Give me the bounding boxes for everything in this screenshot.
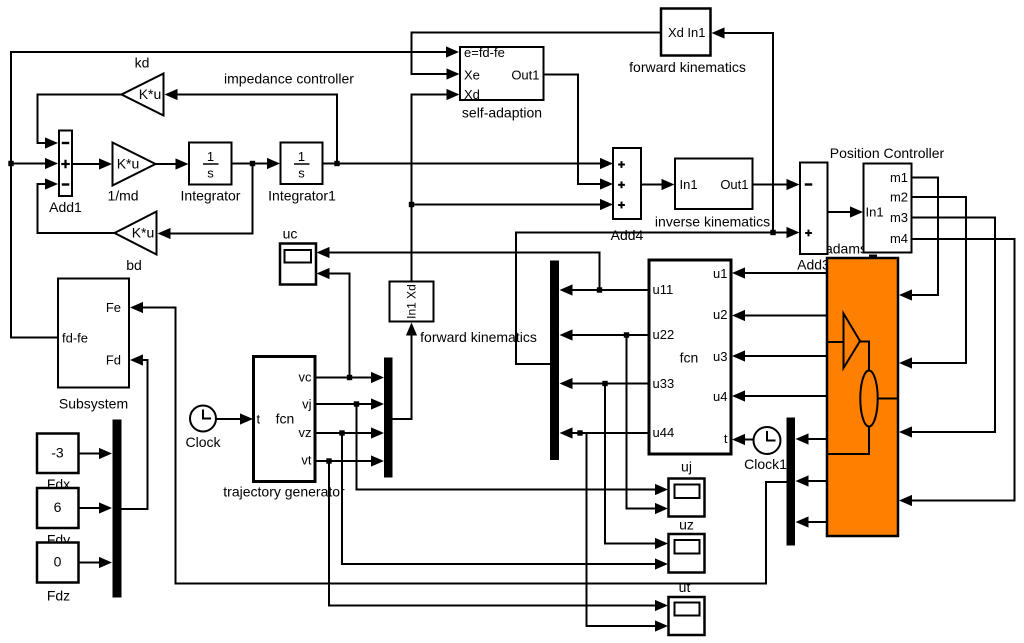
svg-text:Add1: Add1 [49,199,82,215]
wire u44 branch down to ut scope input 2 [587,433,669,632]
wire forward kinematics Xd out to self-adaption Xe [412,33,662,80]
svg-text:m1: m1 [890,170,908,185]
wire adams out 2 to fcn u2 [732,310,827,321]
svg-text:uz: uz [679,517,694,533]
svg-text:6: 6 [54,499,62,515]
wire constant 6 to mux [79,502,113,513]
svg-text:Integrator1: Integrator1 [268,188,336,204]
subsystem Subsystem (fd-fe) [58,279,129,412]
svg-text:kd: kd [135,55,150,71]
node junction u44 branch [577,430,582,435]
constant 0 (Fdz) [37,543,79,604]
svg-text:0: 0 [54,554,62,570]
wire Integrator out to Integrator1 [232,158,281,169]
wire u33 branch down to uz scope input 1 [605,384,668,550]
node junction Integrator out branch to bd [250,161,255,166]
svg-text:s: s [298,166,305,181]
wire vc to trajectory mux [315,372,385,383]
wire constant -3 to mux [79,448,113,459]
svg-text:Out1: Out1 [720,177,748,192]
wire fcn u22 to u-mux [560,329,650,340]
wire bd feedback branch down to bd gain input [158,164,253,240]
node junction Xd net to Add4 [409,202,414,207]
svg-text:Subsystem: Subsystem [59,396,128,412]
node junction fd-fe to Add1 [8,161,13,166]
node junction u11 branch to uc [597,287,602,292]
sum Add1 [49,131,82,216]
svg-text:Out1: Out1 [511,68,539,83]
subsystem self-adaption [460,45,544,121]
svg-text:m2: m2 [890,190,908,205]
svg-text:Add4: Add4 [611,227,644,243]
gain kd [122,55,164,116]
wire Add3 out to Position Controller In1 [828,206,864,217]
svg-text:s: s [207,166,214,181]
svg-text:forward kinematics: forward kinematics [629,59,746,75]
svg-text:vc: vc [299,370,313,385]
clock Clock [185,406,221,451]
constant -3 (Fdx) [37,434,79,493]
wire feedback branch up to forward kinematics In1 [712,27,774,232]
svg-text:u11: u11 [653,282,674,297]
svg-text:Position Controller: Position Controller [830,145,945,161]
node junction vc branch to uc scope [347,375,352,380]
subsystem inverse kinematics [655,159,770,230]
svg-text:Xd: Xd [464,87,480,102]
clock Clock1 [744,427,787,472]
scope uj [669,459,705,517]
svg-text:u1: u1 [713,266,727,281]
svg-text:forward kinematics: forward kinematics [420,329,537,345]
wire position feedback net (u-mux out to Add3 plus) [516,227,800,364]
node junction u33 branch [602,381,607,386]
svg-text:fcn: fcn [680,350,699,366]
integrator Integrator1 [268,143,336,204]
svg-text:Fe: Fe [106,300,121,315]
svg-text:1/md: 1/md [107,188,138,204]
wire Fd net (Fdz mux out to Subsystem Fd) [122,354,148,509]
svg-text:-3: -3 [51,445,64,461]
svg-text:fd-fe: fd-fe [62,331,88,346]
wire m4 to adams input 4 [899,239,1015,506]
node junction u22 branch [624,332,629,337]
wire kd gain out to Add1 input 1 [38,95,122,149]
integrator Integrator [181,143,241,204]
svg-text:m4: m4 [890,231,908,246]
svg-text:uj: uj [681,459,692,475]
wire Clock to trajectory generator t [216,413,253,424]
wire bd gain out to Add1 input 3 [38,178,115,233]
wire u22 branch down to uj scope input 2 [627,335,669,514]
constant 6 (Fdy) [37,488,79,548]
svg-text:u2: u2 [713,307,727,322]
wire adams out 4 to fcn u4 [732,390,827,401]
svg-text:Xe: Xe [464,68,480,83]
subsystem forward kinematics (top) [629,9,746,76]
wire adams to force mux input 2 [796,475,828,486]
wire Integrator1 out to kd gain input [165,89,338,164]
wire vj branch down to uj scope input 1 [357,404,669,495]
svg-text:Clock: Clock [185,434,221,450]
wire trajectory mux out to In1 Xd (forward kinematics) [393,323,418,420]
mux force mux bar [787,418,796,546]
svg-text:t: t [724,431,728,446]
label adams [825,241,867,257]
wire m3 to adams input 3 [899,218,995,438]
svg-text:bd: bd [126,257,142,273]
scope uc [280,226,316,285]
svg-text:adams: adams [825,241,867,257]
svg-text:In1 Xd: In1 Xd [405,284,419,319]
node junction feedback to forward kinematics [770,230,775,235]
wire Xd branch to Add4 input 3 [412,199,614,210]
wire adams to force mux input 3 [796,516,828,527]
svg-text:Integrator: Integrator [181,188,241,204]
fcn trajectory generator [223,357,345,500]
wire inverse kinematics Out1 to Add3 minus [753,179,800,190]
svg-text:uc: uc [283,226,298,242]
wire vj to trajectory mux [315,398,385,409]
svg-text:In1: In1 [680,177,698,192]
wire vt to trajectory mux [315,455,385,466]
wire Xd net (In1 Xd out up to self-adaption Xd) [412,89,460,282]
wire Clock1 to fcn t [732,434,754,445]
svg-text:trajectory generator: trajectory generator [223,484,345,500]
svg-text:u3: u3 [713,349,727,364]
mux trajectory mux bar [384,358,393,478]
wire fcn u44 to u-mux [560,427,650,438]
svg-text:m3: m3 [890,210,908,225]
svg-text:e=fd-fe: e=fd-fe [464,45,505,60]
svg-text:u44: u44 [653,425,675,440]
sum Add3 [797,163,830,273]
svg-text:vj: vj [302,397,312,412]
node junction vz branch [339,430,344,435]
wire vz to trajectory mux [315,427,385,438]
svg-text:K*u: K*u [132,225,155,241]
svg-text:K*u: K*u [117,156,140,172]
wire Integrator1 out to Add4 input 1 [323,158,614,169]
wire constant 0 to mux [79,557,113,568]
subsystem adams (orange plant block) [827,255,898,537]
svg-text:1: 1 [298,149,305,164]
svg-text:Fd: Fd [106,353,121,368]
svg-text:K*u: K*u [139,86,162,102]
svg-text:inverse kinematics: inverse kinematics [655,214,770,230]
node junction vt branch [326,458,331,463]
svg-text:u22: u22 [653,327,675,342]
wire fd-fe branch to Add1 plus input [11,158,58,169]
svg-text:ut: ut [679,579,691,595]
gain 1/md [107,143,155,204]
svg-text:Clock1: Clock1 [744,456,787,472]
svg-text:1: 1 [207,149,214,164]
wire vt branch down to ut scope input 1 [329,461,668,611]
mux Fdz-mux bar [113,420,122,598]
label impedance controller [224,71,354,87]
wire adams out 3 to fcn u3 [732,350,827,361]
wire vc branch up to uc scope input 2 [317,268,350,378]
svg-text:vt: vt [301,453,312,468]
wire adams out 1 to fcn u1 [732,267,827,278]
wire Fe net (force mux out to Subsystem Fe) [130,302,787,584]
scope ut [669,579,705,635]
svg-text:Add3: Add3 [797,257,830,273]
svg-text:In1: In1 [687,25,705,40]
fcn fcn (controller) [649,260,731,454]
node junction vj branch [354,401,359,406]
mux u-mux bar [550,261,559,461]
svg-text:In1: In1 [866,205,884,220]
svg-text:impedance controller: impedance controller [224,71,354,87]
svg-text:fcn: fcn [276,411,295,427]
wire m1 to adams input 1 [899,178,938,301]
node junction Integrator1 out branch [334,161,339,166]
wire fd-fe net (Subsystem out to self-adaption e and Add1 +) [11,46,459,337]
svg-text:Xd: Xd [668,25,684,40]
wire fcn u33 to u-mux [560,378,650,389]
wire adams to force mux input 1 [796,433,828,444]
svg-text:Fdz: Fdz [47,588,70,604]
svg-text:u33: u33 [653,376,675,391]
svg-text:vz: vz [299,425,312,440]
wire self-adaption Out1 to Add4 input 2 [544,75,614,190]
svg-text:u4: u4 [713,389,727,404]
wire vz branch down to uz scope input 2 [342,433,668,570]
wire fcn u11 to u-mux [560,284,650,295]
scope uz [669,517,705,573]
subsystem Position Controller [830,145,945,253]
wire u11 branch up to uc scope input 1 [317,247,600,290]
wire m2 to adams input 2 [899,197,966,369]
svg-text:t: t [257,412,261,427]
wire Add1 out to 1/md gain [72,158,112,169]
subsystem In1 Xd (forward kinematics) [390,282,537,346]
wire 1/md out to Integrator [156,158,189,169]
gain bd [115,212,157,274]
sum Add4 [611,148,644,243]
wire Add4 out to inverse kinematics In1 [641,179,675,190]
svg-text:self-adaption: self-adaption [462,105,542,121]
